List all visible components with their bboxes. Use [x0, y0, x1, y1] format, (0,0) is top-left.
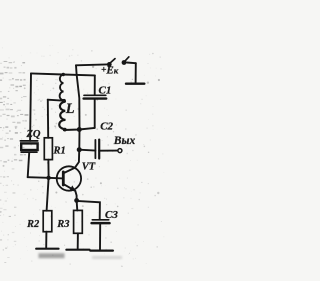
wire left rail upper — [29, 73, 32, 140]
resistor R3 — [74, 210, 83, 233]
wire C2 left — [79, 149, 95, 152]
wire collector column — [78, 130, 80, 150]
terminal +Ek left — [107, 59, 115, 67]
node coil top cusp — [62, 73, 65, 76]
ground R3 — [66, 249, 89, 251]
wire C1 top lead — [94, 75, 96, 94]
capacitor C1 — [84, 95, 107, 98]
wire drop to top ground — [135, 63, 137, 82]
resistor R2 — [43, 211, 52, 232]
wire R3 bottom lead — [77, 233, 79, 248]
svg-text:С1: С1 — [99, 85, 112, 97]
node base junction — [46, 176, 50, 180]
node emitter junction — [74, 198, 79, 203]
svg-text:R1: R1 — [53, 146, 66, 157]
wire left rail lower — [28, 153, 30, 177]
ground C3 — [90, 250, 113, 252]
wire C1 bottom lead — [94, 100, 96, 128]
ground top right — [126, 82, 144, 84]
svg-text:R3: R3 — [56, 219, 69, 230]
svg-text:R2: R2 — [26, 219, 40, 230]
svg-text:L: L — [65, 101, 75, 117]
wire coil tap — [48, 100, 64, 101]
svg-text:С2: С2 — [100, 121, 113, 133]
inductor L upper section — [60, 75, 64, 101]
capacitor C2 — [95, 140, 99, 159]
resistor R1 — [44, 138, 52, 160]
wire coil bottom horizontal — [64, 128, 95, 130]
svg-text:VТ: VТ — [82, 161, 96, 172]
svg-text:С3: С3 — [105, 209, 118, 221]
crystal ZQ — [20, 141, 37, 152]
wire coil top horizontal — [31, 73, 95, 75]
wire R1 top lead — [47, 100, 49, 138]
ground R2 — [36, 248, 58, 250]
node coil tap — [62, 99, 66, 103]
node coil bottom cusp — [63, 128, 67, 132]
wire top supply rail — [76, 63, 107, 66]
wire collector into transistor — [64, 150, 79, 173]
wire emitter to C3 — [77, 201, 100, 220]
transistor VT emitter — [64, 184, 77, 200]
wire from right terminal — [127, 62, 136, 65]
capacitor C3 — [92, 220, 110, 223]
transistor VT base bar — [62, 172, 65, 185]
wire R2 top lead — [47, 178, 49, 211]
transistor VT emitter arrow — [69, 185, 76, 191]
inductor L lower section — [59, 102, 65, 130]
svg-text:Вых: Вых — [113, 135, 136, 147]
smudge below R2 ground — [39, 253, 65, 258]
wire R1 bottom lead — [47, 160, 49, 178]
terminal output — [118, 149, 122, 153]
wire base — [28, 177, 64, 178]
node supply-collector junction — [77, 127, 82, 132]
wire supply drop to collector node — [76, 65, 80, 129]
wire C2 right to output — [99, 150, 118, 152]
wire R2 bottom lead — [45, 232, 47, 248]
node collector C2 junction — [77, 147, 82, 152]
transistor VT circle — [57, 166, 81, 190]
svg-text:ZQ: ZQ — [26, 129, 41, 140]
wire C3 bottom lead — [99, 223, 101, 249]
svg-text:+Ек: +Ек — [101, 65, 119, 77]
terminal +Ek right — [122, 57, 129, 65]
wire R3 top lead — [76, 200, 79, 210]
